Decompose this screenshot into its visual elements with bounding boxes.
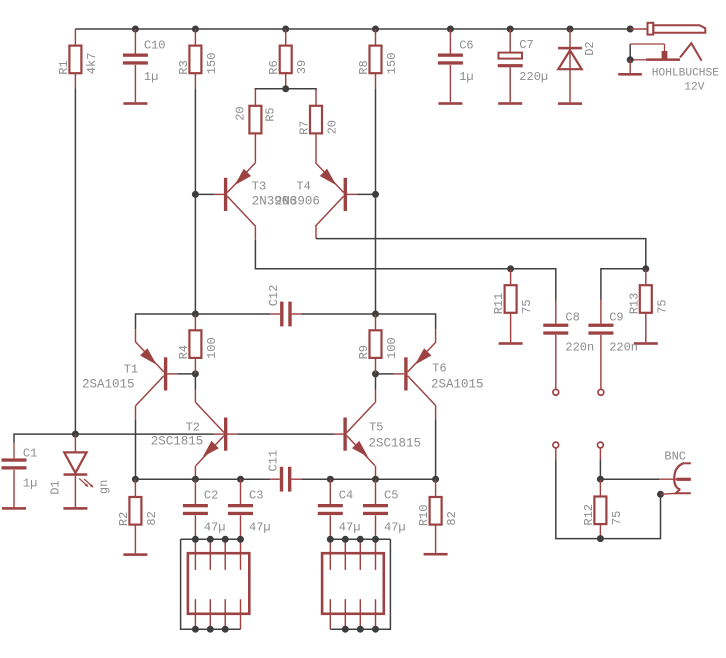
wire +12V top rail [75, 28, 630, 30]
svg-text:BNC: BNC [664, 450, 686, 464]
junction top rail / R6 [282, 26, 289, 33]
junction C12 right node [372, 311, 379, 318]
wire T4 base [347, 193, 376, 195]
connector BNC [661, 463, 691, 494]
resistor R5 [233, 89, 277, 134]
junction R9 bottom / T6 base [372, 370, 379, 377]
junction L2 pin5 [342, 626, 349, 633]
wire emitter rail right [301, 478, 435, 480]
junction T4 base [372, 191, 379, 198]
connector HOHLBUCHSE switch contact [630, 43, 701, 61]
junction L2 pin3 [357, 536, 364, 543]
wire R6 node to R5 [255, 89, 285, 91]
label T6 [432, 362, 446, 376]
resistor R2 [117, 479, 159, 526]
svg-text:R3: R3 [177, 60, 191, 74]
wire R7 to T4 emitter [315, 134, 317, 163]
transistor T2 [196, 403, 228, 466]
wire T2 emitter to rail [194, 466, 196, 479]
junction L2 pin6 [357, 626, 364, 633]
svg-text:2SA1015: 2SA1015 [431, 378, 484, 392]
svg-text:R13: R13 [627, 293, 641, 315]
svg-text:47µ: 47µ [249, 521, 271, 535]
wire R13 to ground [645, 313, 647, 342]
junction rail / R2 [132, 476, 139, 483]
label T3 value [252, 195, 297, 209]
svg-text:47µ: 47µ [339, 521, 361, 535]
label T3 [252, 180, 266, 194]
wire jack switch pin [629, 44, 631, 60]
svg-text:20: 20 [326, 120, 340, 134]
svg-text:2SC1815: 2SC1815 [369, 437, 422, 451]
pad C8 out [553, 389, 559, 395]
junction L2 pin7 [372, 626, 379, 633]
svg-text:C5: C5 [384, 488, 398, 502]
wire L2 right loop [330, 539, 390, 629]
junction R11 top [507, 265, 514, 272]
svg-text:T2: T2 [186, 421, 200, 435]
junction rail / C4 [327, 476, 334, 483]
wire T5 emitter to rail [375, 466, 377, 479]
svg-text:R1: R1 [57, 60, 71, 74]
svg-text:4k7: 4k7 [85, 53, 99, 75]
wire R4 to node [194, 358, 196, 374]
diode D1 (LED) [49, 434, 111, 507]
svg-text:220µ: 220µ [519, 70, 548, 84]
connector HOHLBUCHSE barrel [630, 23, 705, 35]
wire R9 to node [375, 358, 377, 374]
wire R6 node to R7 [286, 89, 316, 91]
resistor R7 [298, 89, 340, 135]
wire BNC shield return [600, 494, 660, 538]
svg-text:150: 150 [205, 53, 219, 75]
junction L1 pin5 [192, 626, 199, 633]
ground D2 [558, 102, 582, 105]
svg-text:12V: 12V [684, 82, 704, 94]
junction bias rail / D1 [72, 431, 79, 438]
wire T4 collector [316, 226, 646, 268]
ground C1 [2, 507, 26, 510]
ground HOHLBUCHSE [618, 73, 642, 76]
junction top rail / C10 [132, 26, 139, 33]
label T5 [369, 421, 383, 435]
transistor T3 [224, 163, 256, 227]
svg-text:R10: R10 [417, 504, 431, 526]
label T1 [124, 363, 138, 377]
capacitor C10 [123, 29, 166, 102]
svg-text:75: 75 [655, 299, 669, 313]
junction L1 pin1 [192, 536, 199, 543]
junction top rail / D2 [567, 26, 574, 33]
svg-text:C9: C9 [609, 310, 623, 324]
capacitor C11 [267, 450, 302, 492]
ground R10 [424, 553, 448, 556]
svg-text:gn: gn [97, 480, 111, 494]
svg-text:2N3906: 2N3906 [275, 195, 320, 209]
label T4 value [275, 195, 320, 209]
svg-text:R7: R7 [298, 120, 312, 134]
junction C12 left node [192, 311, 199, 318]
wire R10 to ground [435, 525, 437, 553]
svg-text:C10: C10 [144, 38, 166, 52]
wire T1 collector [135, 406, 137, 479]
transistor T1 [136, 342, 168, 406]
wire T3 collector rail to R11 [0, 0, 1, 1]
junction T3 base [192, 191, 199, 198]
svg-text:2SA1015: 2SA1015 [82, 378, 135, 392]
ground C7 [498, 102, 522, 105]
junction R13 top [642, 265, 649, 272]
wire BNC signal [600, 478, 676, 480]
transistor T4 [315, 163, 347, 227]
wire L1 left loop [181, 539, 241, 629]
svg-text:150: 150 [385, 53, 399, 75]
junction BNC shield node [657, 491, 664, 498]
wire T2 base to T5 base [227, 433, 343, 435]
label T2 value [151, 435, 204, 449]
capacitor C7 [498, 29, 548, 102]
wire T3 collector [255, 226, 510, 268]
wire jack to ground [629, 60, 631, 73]
junction top rail / C6 [447, 26, 454, 33]
wire T1 base [167, 373, 195, 375]
wire R11 to ground [510, 313, 512, 342]
svg-text:1µ: 1µ [23, 476, 37, 490]
label T5 value [369, 437, 422, 451]
wire R9 node to T5 collector [375, 374, 377, 403]
svg-text:C8: C8 [565, 310, 579, 324]
svg-text:C4: C4 [339, 488, 353, 502]
junction L1 pin2 [207, 536, 214, 543]
svg-text:R9: R9 [357, 345, 371, 359]
svg-text:C2: C2 [204, 488, 218, 502]
svg-text:R6: R6 [267, 60, 281, 74]
label HOHLBUCHSE [652, 68, 719, 80]
svg-text:C11: C11 [267, 450, 281, 472]
capacitor C4 [318, 479, 361, 539]
wire T6 collector [435, 406, 437, 479]
wire R11 node to C8 [511, 269, 556, 324]
svg-text:82: 82 [145, 511, 159, 525]
wire R2 to ground [134, 525, 136, 554]
junction L2 pin4 [372, 536, 379, 543]
resistor R12 [582, 479, 624, 525]
junction top rail / R3 [192, 26, 199, 33]
pad jumper left [553, 442, 559, 448]
svg-text:C1: C1 [23, 446, 37, 460]
inductor block L1 body [188, 553, 249, 614]
transistor T6 [404, 342, 436, 406]
wire C12 right node to T6 emitter [376, 314, 436, 342]
wire R3 bottom to T3 base node [194, 73, 196, 194]
svg-text:T5: T5 [369, 421, 383, 435]
junction top rail / R8 [372, 26, 379, 33]
transistor T5 [343, 403, 375, 466]
diode D2 [558, 29, 597, 102]
capacitor C12 [195, 285, 375, 327]
junction top rail / jack pin [627, 26, 634, 33]
pad jumper right [598, 442, 604, 448]
wire R1 bottom to node [74, 73, 76, 434]
junction L1 pin6 [207, 626, 214, 633]
wire emitter rail left [135, 478, 270, 480]
label T1 value [82, 378, 135, 392]
wire T4 base to R9 node [375, 194, 377, 314]
svg-text:T4: T4 [296, 180, 310, 194]
junction L1 pin4 [237, 536, 244, 543]
wire T6 base [376, 373, 404, 375]
svg-text:C3: C3 [249, 488, 263, 502]
wire R8 bottom to T4 base node [375, 73, 377, 194]
wire T3 base node down to C12 node [194, 194, 196, 314]
wire jumper left [556, 448, 601, 539]
junction jack ground node [627, 56, 634, 63]
resistor R1 [57, 29, 99, 75]
svg-text:100: 100 [205, 337, 219, 359]
svg-text:T3: T3 [252, 180, 266, 194]
svg-text:47µ: 47µ [204, 521, 226, 535]
svg-text:D1: D1 [49, 480, 63, 494]
svg-text:75: 75 [520, 299, 534, 313]
resistor R3 [177, 29, 219, 75]
label BNC [664, 450, 686, 464]
capacitor C5 [363, 479, 406, 539]
resistor R8 [357, 29, 399, 75]
ground C10 [123, 102, 147, 105]
svg-text:D2: D2 [583, 41, 597, 55]
svg-text:T6: T6 [432, 362, 446, 376]
junction rail / T2 emitter / C2 [192, 476, 199, 483]
wire L1 top pins [181, 538, 241, 540]
ground R13 [634, 342, 658, 345]
wire R6 bottom node [285, 72, 287, 89]
resistor R6 [267, 29, 309, 75]
capacitor C2 [183, 479, 226, 539]
svg-text:75: 75 [610, 511, 624, 525]
wire T3 base [195, 193, 224, 195]
junction R12 bottom [597, 535, 604, 542]
capacitor C3 [228, 479, 271, 539]
pins L1 [195, 539, 240, 629]
svg-text:C12: C12 [267, 285, 281, 307]
junction R6 bottom [282, 85, 289, 92]
junction L1 pin3 [222, 536, 229, 543]
svg-text:R2: R2 [117, 512, 131, 526]
wire jumper right [599, 448, 601, 479]
wire bias rail C1 to T2 base [14, 434, 224, 443]
wire R5 to T3 emitter [254, 134, 256, 163]
capacitor C9 [588, 310, 638, 389]
svg-text:100: 100 [385, 337, 399, 359]
resistor R10 [417, 479, 459, 526]
svg-text:R8: R8 [357, 60, 371, 74]
resistor R11 [492, 269, 534, 315]
junction BNC signal node [597, 476, 604, 483]
pad C9 out [598, 389, 604, 395]
svg-text:R5: R5 [263, 107, 277, 121]
svg-text:1µ: 1µ [144, 70, 158, 84]
wire L2 top pins [330, 538, 390, 540]
svg-text:220n: 220n [609, 340, 638, 354]
ground C6 [438, 102, 462, 105]
label T6 value [431, 378, 484, 392]
svg-text:R12: R12 [582, 504, 596, 526]
svg-text:C7: C7 [519, 38, 533, 52]
svg-text:T1: T1 [124, 363, 138, 377]
junction L2 pin1 [327, 536, 334, 543]
svg-text:HOHLBUCHSE: HOHLBUCHSE [652, 68, 719, 80]
junction rail / C3 [237, 476, 244, 483]
label T4 [296, 180, 310, 194]
junction top rail / C7 [507, 26, 514, 33]
junction rail / R10 [432, 476, 439, 483]
svg-text:R4: R4 [177, 345, 191, 359]
resistor R9 [357, 314, 399, 359]
junction rail / T5 emitter / C5 [372, 476, 379, 483]
label 12V [684, 82, 704, 94]
capacitor C1 [2, 443, 38, 507]
label T2 [186, 421, 200, 435]
svg-text:R11: R11 [492, 293, 506, 315]
wire R12 to bottom node [599, 524, 601, 539]
capacitor C8 [543, 310, 594, 389]
svg-text:C6: C6 [459, 38, 473, 52]
capacitor C6 [438, 29, 474, 102]
resistor R4 [177, 314, 219, 359]
pins L2 [330, 539, 375, 629]
wire R13 node to C9 [601, 269, 646, 324]
wire C12 node to T1 emitter [136, 314, 196, 342]
ground R11 [499, 342, 523, 345]
ground D1 [63, 507, 87, 510]
svg-text:82: 82 [445, 511, 459, 525]
resistor R13 [627, 269, 669, 315]
junction L1 pin7 [222, 626, 229, 633]
svg-text:220n: 220n [565, 340, 594, 354]
wire T1 base node to T2 collector [194, 374, 196, 403]
junction R4 bottom / T1 base [192, 370, 199, 377]
svg-text:39: 39 [295, 60, 309, 74]
svg-text:2SC1815: 2SC1815 [151, 435, 204, 449]
ground R2 [123, 553, 147, 556]
svg-text:20: 20 [233, 106, 247, 120]
junction L2 pin2 [342, 536, 349, 543]
inductor block L2 body [322, 553, 384, 614]
svg-text:47µ: 47µ [384, 521, 406, 535]
svg-text:1µ: 1µ [459, 70, 473, 84]
